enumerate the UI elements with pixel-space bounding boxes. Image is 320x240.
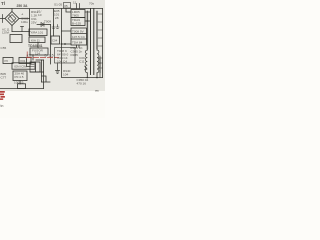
box IC902 (71, 28, 87, 45)
svg-text:05: 05 (64, 4, 68, 8)
svg-text:TDA 84: TDA 84 (72, 41, 83, 45)
wire twin verticals (42, 60, 44, 82)
wire left riser (32, 55, 34, 60)
svg-text:KRA 101: KRA 101 (31, 31, 43, 35)
junction node D (64, 43, 66, 45)
svg-text:P0 4.5: P0 4.5 (15, 75, 24, 79)
svg-text:107.5 C4: 107.5 C4 (72, 35, 85, 39)
svg-text:TDA8841: TDA8841 (28, 44, 43, 48)
long box CN901 (12, 63, 35, 69)
wire IC902 drop (77, 45, 80, 48)
svg-text:X01: X01 (20, 59, 26, 63)
box IC903 top (71, 10, 85, 18)
junction node F (96, 77, 98, 79)
diode D902 line (37, 24, 51, 26)
bridge diode ticks (8, 15, 16, 23)
wire bridge bottom to bus (11, 26, 13, 32)
vertical bus x61 (61, 9, 63, 32)
svg-text:C55: C55 (1, 46, 7, 50)
transformer secondary winding (96, 11, 98, 50)
wire top stub (36, 59, 44, 61)
svg-text:7805: 7805 (72, 14, 79, 18)
svg-text:10: 10 (38, 13, 42, 17)
svg-text:100 25: 100 25 (14, 81, 24, 85)
svg-text:28: 28 (55, 16, 59, 20)
svg-text:104 C4: 104 C4 (57, 60, 67, 64)
svg-text:120Vt: 120Vt (2, 30, 10, 34)
svg-text:T008 9V: T008 9V (72, 30, 85, 34)
ground G3 (56, 64, 60, 74)
red wire riser (26, 52, 28, 58)
top border wire (0, 8, 103, 10)
box IC901 (30, 48, 48, 55)
box left REG901 (10, 35, 22, 43)
svg-text:C04: C04 (52, 39, 58, 43)
svg-text:470 16: 470 16 (77, 82, 87, 86)
fuse F901 ticks (77, 4, 80, 9)
svg-text:104: 104 (63, 73, 68, 77)
secondary tap wires (98, 14, 103, 68)
paper background (0, 0, 105, 91)
svg-text:S1 05: S1 05 (54, 3, 62, 7)
wire drop to bottom border (43, 72, 45, 89)
svg-text:70s: 70s (89, 2, 94, 6)
svg-text:250 3A: 250 3A (17, 4, 28, 8)
svg-text:100u: 100u (21, 20, 28, 24)
wire box left (66, 9, 71, 13)
wire bridge top to rail (11, 9, 13, 12)
small box P901 (18, 84, 26, 89)
diode D902 symbol (41, 23, 44, 27)
box divider IC902 (71, 34, 87, 40)
crystal divider (35, 62, 37, 72)
box X901 crystal (30, 62, 40, 72)
wire vertical x50 (50, 25, 52, 65)
fuse box F902 (64, 3, 71, 9)
ground G1 (52, 25, 55, 29)
svg-text:C11: C11 (79, 60, 85, 64)
wire box drop (37, 43, 39, 49)
svg-text:KIA 11: KIA 11 (31, 39, 40, 43)
wire AC in (0, 15, 5, 23)
capacitor C901 vertical wire (29, 9, 31, 36)
svg-text:C77: C77 (1, 76, 7, 80)
crystal plates (31, 65, 35, 67)
svg-text:P0: P0 (5, 59, 9, 63)
ground G2 (56, 25, 59, 29)
bottom-right border wire (62, 77, 103, 79)
box R920 (51, 36, 60, 44)
wire into crystal (27, 59, 31, 67)
arrow tap left (85, 66, 87, 70)
bus wire (12, 31, 30, 33)
capacitor C902 above bus (21, 27, 24, 32)
box Q901 (29, 29, 47, 36)
box Q902 (29, 37, 45, 43)
svg-text:Tl: Tl (1, 1, 5, 6)
bottom-left border wire (0, 88, 44, 90)
svg-text:B+155: B+155 (72, 22, 81, 26)
box IC903 bottom (71, 18, 85, 26)
junction node E (87, 77, 89, 79)
transformer primary winding (86, 11, 88, 50)
capacitor C912 hatch (99, 74, 101, 78)
secondary drop wires (87, 73, 97, 78)
red highlight wire (26, 57, 59, 59)
wire box bottom (30, 71, 44, 73)
svg-text:ION ICIM: ION ICIM (14, 65, 27, 69)
right border wire (102, 9, 104, 78)
wire IC902 left (62, 31, 72, 44)
svg-text:114: 114 (35, 52, 40, 56)
wire box to transformer (85, 12, 91, 21)
svg-text:T009: T009 (44, 20, 51, 24)
left box X902 (19, 58, 31, 64)
mid vertical bus x53 (53, 9, 55, 37)
svg-text:a12V: a12V (27, 54, 35, 58)
svg-text:25V: 25V (31, 21, 37, 25)
transformer T902 core right (93, 9, 95, 75)
svg-text:11: 11 (73, 1, 76, 5)
bridge rectifier D901 diamond (5, 12, 19, 26)
box table border (55, 48, 76, 64)
wire step (42, 76, 51, 82)
red stamp bottom-left (0, 91, 5, 100)
secondary winding 2 (99, 56, 100, 74)
transformer T902 core left (90, 9, 92, 75)
junction node C (61, 43, 63, 45)
wire bridge right to cap node (19, 18, 30, 20)
left box T901 label (3, 58, 13, 64)
svg-text:B+115: B+115 (45, 54, 54, 58)
svg-text:tn: tn (1, 104, 4, 108)
svg-text:D935: D935 (71, 53, 79, 57)
vertical bus x62 low (61, 44, 63, 78)
box CN902 (13, 71, 27, 81)
wire under CN902 (19, 81, 21, 85)
